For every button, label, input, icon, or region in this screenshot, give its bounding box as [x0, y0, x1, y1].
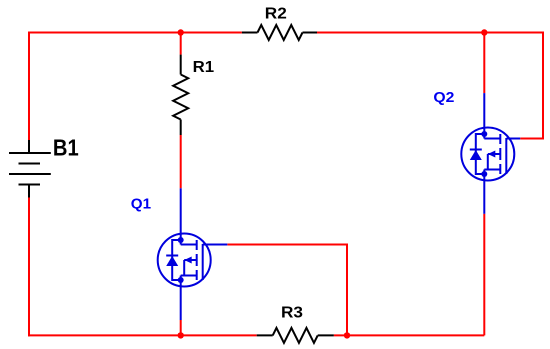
svg-text:R1: R1: [193, 59, 215, 76]
svg-text:R3: R3: [281, 304, 303, 321]
svg-text:B1: B1: [53, 134, 79, 160]
svg-text:Q2: Q2: [433, 89, 454, 106]
svg-text:Q1: Q1: [131, 195, 152, 212]
svg-text:R2: R2: [265, 5, 287, 22]
